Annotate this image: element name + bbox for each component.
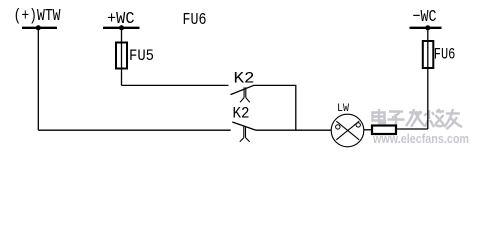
svg-text:FU5: FU5 [129, 47, 154, 65]
resistor (ballast) [372, 126, 396, 135]
wire FU6 column [427, 28, 429, 129]
contact K2 lower: blade [232, 122, 256, 130]
wire contact to lamp [256, 129, 332, 131]
node (+)WTW terminal [22, 25, 57, 30]
wire +WC to FU5 and down [121, 28, 123, 86]
fuse FU5 [116, 43, 127, 69]
wire FU5 to contact [122, 84, 229, 86]
fuse FU6 [423, 41, 434, 68]
wire corner down [295, 85, 297, 130]
svg-text:−WC: −WC [413, 8, 437, 27]
svg-text:(+)WTW: (+)WTW [14, 7, 62, 26]
wire contact to corner [254, 84, 296, 86]
node +WC terminal [103, 25, 140, 30]
watermark [374, 110, 464, 130]
svg-text:FU6: FU6 [183, 11, 207, 30]
contact K2 upper: fixed fork [240, 87, 250, 102]
contact K2 upper: blade [231, 85, 255, 94]
svg-text:K2: K2 [234, 69, 255, 87]
svg-text:K2: K2 [233, 104, 250, 122]
wire resistor to FU6 column [397, 128, 428, 130]
lamp LW [331, 114, 364, 147]
wire bottom horizontal [38, 129, 230, 131]
wire lamp to resistor [364, 129, 372, 131]
svg-text:LW: LW [337, 103, 349, 115]
contact K2 lower: fixed fork [240, 126, 250, 142]
svg-text:FU6: FU6 [434, 46, 456, 64]
wire WTW down [37, 28, 39, 130]
node -WC terminal [410, 25, 442, 30]
